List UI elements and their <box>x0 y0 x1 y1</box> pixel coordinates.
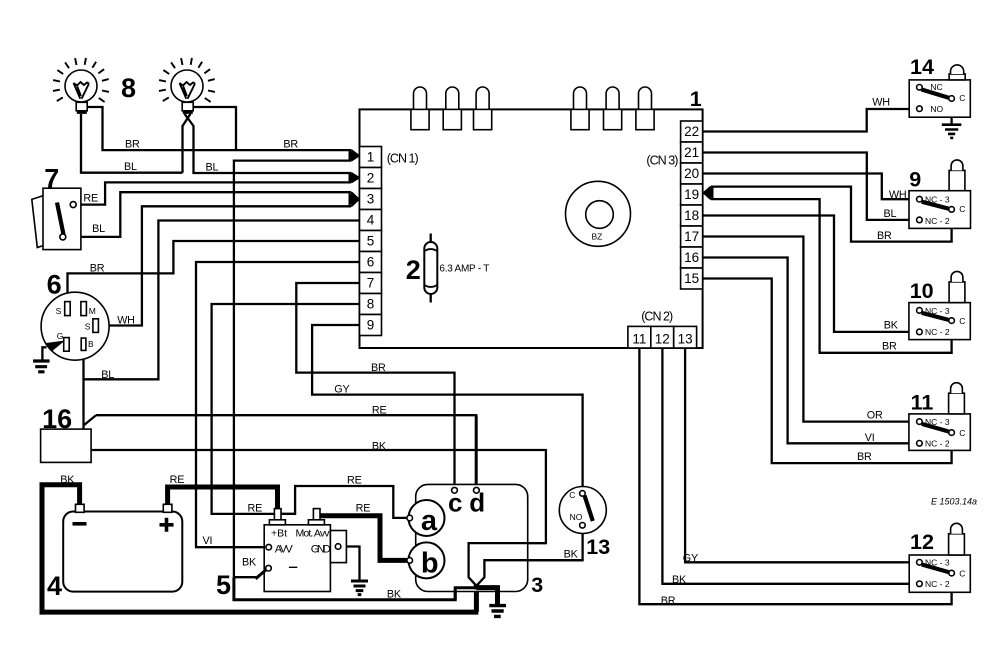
svg-text:15: 15 <box>684 271 699 286</box>
CN3 pin box 18 <box>681 205 703 226</box>
svg-text:BK: BK <box>372 441 387 453</box>
svg-text:BK: BK <box>387 588 402 600</box>
CN2 pin box 11 <box>628 326 651 348</box>
engine 3 terminal a contact <box>407 515 413 521</box>
svg-text:BR: BR <box>877 230 892 242</box>
terminal tab 2 <box>446 87 459 109</box>
key switch 6 pin S top-left <box>65 302 71 316</box>
svg-text:BK: BK <box>242 557 257 569</box>
lamp L1 bulb <box>65 70 97 102</box>
svg-text:G: G <box>57 331 64 341</box>
switch 7 contact lower <box>60 234 66 240</box>
wire GY CN2 pin13 to switch12 NC-3 <box>685 348 916 562</box>
svg-text:+Bt: +Bt <box>271 528 287 540</box>
svg-text:C: C <box>569 490 575 500</box>
svg-text:11: 11 <box>911 391 934 415</box>
svg-text:13: 13 <box>586 535 610 559</box>
engine 3 terminal c contact <box>452 487 458 493</box>
switch 10 plunger <box>949 282 965 303</box>
svg-text:GY: GY <box>683 553 698 565</box>
wire lamp2 left stem <box>183 114 191 173</box>
relay 5 lever <box>256 570 267 579</box>
wire BK battery loop thick <box>42 485 478 612</box>
switch 14 plunger <box>949 74 965 80</box>
CN1 pin box 9 <box>360 315 382 336</box>
svg-text:3: 3 <box>367 192 375 207</box>
wire funnel right from switch13 ND <box>477 528 582 585</box>
wire junction to ground redrawn <box>476 588 497 604</box>
svg-text:BL: BL <box>92 223 105 235</box>
wire BR lamp1 to CN1 pin1 top <box>87 107 351 150</box>
svg-text:BZ: BZ <box>592 232 603 242</box>
svg-text:a: a <box>421 505 438 537</box>
svg-text:2: 2 <box>406 255 421 285</box>
microswitch 10 body <box>909 303 970 340</box>
engine 3 terminal b circle <box>409 542 445 578</box>
svg-text:NC - 2: NC - 2 <box>925 579 950 589</box>
wire BL switch7 to CN1 pin3 top <box>64 192 351 237</box>
key switch 6 pin G bottom-left <box>64 338 69 352</box>
wire BR CN3 pin19 bottom to switch10 C <box>711 199 952 353</box>
control unit 1 main box <box>360 109 703 348</box>
switch 10 contact NC-3 <box>917 308 923 314</box>
switch 11 contact NC-3 <box>917 419 923 425</box>
switch 10 contact NC-2 <box>917 329 923 335</box>
svg-text:E 1503.14a: E 1503.14a <box>931 497 977 507</box>
key switch 6 body circle <box>41 292 109 360</box>
wire pin1 bottom BK down to relay minus and motor junction <box>234 161 351 578</box>
svg-text:NC - 3: NC - 3 <box>925 558 950 568</box>
svg-text:BL: BL <box>101 369 114 381</box>
microswitch 11 body <box>909 414 970 451</box>
svg-text:M: M <box>89 306 96 316</box>
CN3 pin box 22 <box>681 121 703 142</box>
svg-text:BR: BR <box>882 340 897 352</box>
svg-text:4: 4 <box>367 213 375 228</box>
svg-text:8: 8 <box>121 73 136 103</box>
svg-text:RE: RE <box>372 405 387 417</box>
key switch 6 pin M top-right <box>81 302 87 316</box>
wire BL key6 B-pin to CN1 pin4 <box>82 351 84 430</box>
wire BR CN2 pin11 to switch12 C <box>639 348 951 604</box>
microswitch 12 body <box>909 555 970 592</box>
switch 12 plunger <box>949 534 965 555</box>
svg-text:NC - 2: NC - 2 <box>925 216 950 226</box>
svg-text:(CN 3): (CN 3) <box>646 154 678 168</box>
CN1 pin box 8 <box>360 294 382 315</box>
switch 9 plunger <box>949 170 965 190</box>
relay 5 terminal Mot.Avv <box>313 509 320 520</box>
battery 4 minus sign <box>73 522 87 526</box>
svg-text:VI: VI <box>865 432 875 444</box>
svg-text:RE: RE <box>83 192 98 204</box>
switch 14 contact C <box>949 96 955 102</box>
svg-text:21: 21 <box>684 145 699 160</box>
svg-text:BR: BR <box>371 362 386 374</box>
svg-text:16: 16 <box>684 250 699 265</box>
lamp L1 filament <box>74 82 90 99</box>
switch 14 contact NC <box>917 85 923 91</box>
relay 5 contact minus <box>266 565 272 571</box>
wire RE CN1 pin8 to relay +Bt <box>212 304 360 514</box>
switch 7 lever <box>57 203 64 236</box>
svg-text:9: 9 <box>909 168 921 192</box>
terminal tab 1 <box>414 87 427 109</box>
switch 12 lever <box>922 565 949 573</box>
wire WH CN3 pin22 to switch14 NO <box>703 109 917 132</box>
CN1 pin box 6 <box>360 252 382 273</box>
battery 4 terminal plus <box>163 504 172 512</box>
svg-text:C: C <box>959 93 965 103</box>
svg-text:1: 1 <box>690 87 702 111</box>
svg-text:(CN 2): (CN 2) <box>641 310 673 324</box>
microswitch 14 body <box>909 80 970 117</box>
svg-text:BR: BR <box>90 263 105 275</box>
svg-text:RE: RE <box>356 503 371 515</box>
wire BK CN3 pin18 to switch10 NC-2 <box>703 216 917 332</box>
arrow pennant pin3 <box>351 192 359 206</box>
CN1 pin box 3 <box>360 189 382 210</box>
key switch 6 pin B bottom-right <box>81 338 86 350</box>
svg-text:BK: BK <box>884 320 899 332</box>
label relay minus dash <box>289 566 297 568</box>
wire relay GND to ground <box>341 547 360 581</box>
svg-text:BL: BL <box>124 161 137 173</box>
switch 13 contact C <box>580 491 586 497</box>
lamp L1 rays <box>53 58 109 102</box>
svg-text:S: S <box>85 322 91 332</box>
wire GY CN1 pin9 to switch13 C <box>312 325 582 491</box>
svg-text:19: 19 <box>684 187 699 202</box>
switch 11 plunger <box>949 393 965 414</box>
wire BR key6 S-pin to CN1 pin5 <box>68 241 360 302</box>
switch 7 body <box>43 188 81 249</box>
switch 13 contact NO <box>580 523 586 529</box>
svg-text:NC - 3: NC - 3 <box>925 195 950 205</box>
wire key6 B to box16 diagonal branch to RE d-wire <box>84 415 97 425</box>
terminal tab 3 <box>476 87 489 109</box>
svg-text:17: 17 <box>684 229 699 244</box>
svg-text:S: S <box>56 306 62 316</box>
junction dot motor ground <box>474 584 479 589</box>
svg-text:NC: NC <box>930 82 942 92</box>
svg-text:12: 12 <box>655 332 670 347</box>
switch 11 contact NC-2 <box>917 441 923 447</box>
engine 3 funnel wires redrawn inside <box>469 543 583 585</box>
svg-text:RE: RE <box>347 475 362 487</box>
battery 4 body <box>63 512 182 592</box>
svg-text:1: 1 <box>367 150 375 165</box>
ground symbol switch14 <box>942 125 962 138</box>
svg-text:BL: BL <box>884 208 897 220</box>
wire BK relay bottom run to motor junction <box>234 577 474 600</box>
svg-text:18: 18 <box>684 208 699 223</box>
CN1 pin box 4 <box>360 210 382 231</box>
switch 9 lever <box>922 202 949 209</box>
svg-text:RE: RE <box>248 503 263 515</box>
arrow pennant pin1 <box>351 150 359 161</box>
CN2 pin box 12 <box>651 326 674 348</box>
switch 9 contact NC-3 <box>917 196 923 202</box>
svg-text:BK: BK <box>564 549 579 561</box>
svg-text:C: C <box>959 428 965 438</box>
svg-text:d: d <box>469 487 485 517</box>
CN3 pin box 20 <box>681 163 703 184</box>
microswitch 9 body <box>909 191 971 229</box>
wire thick junction to bottom BK run <box>474 587 479 612</box>
svg-text:BL: BL <box>206 161 219 173</box>
wire BR CN3 pin19 top to switch9 C <box>711 187 952 242</box>
svg-text:c: c <box>448 487 462 517</box>
fuse 2 capsule <box>430 234 432 303</box>
svg-text:8: 8 <box>367 297 375 312</box>
battery 4 plus sign <box>160 518 174 532</box>
starter relay 5 body <box>264 525 330 592</box>
lamp L2 rays <box>159 58 215 102</box>
wire BK box16 to motor funnel left <box>91 450 546 585</box>
relay 5 terminal +Bt <box>274 509 281 520</box>
svg-text:WH: WH <box>889 189 907 201</box>
terminal tab 4 <box>574 87 587 109</box>
lamp L2 socket <box>182 102 193 111</box>
CN3 pin box 17 <box>681 226 703 247</box>
switch 7 stacked plates <box>32 196 49 248</box>
svg-text:C: C <box>959 316 965 326</box>
svg-text:7: 7 <box>367 276 375 291</box>
safety switch 13 circle <box>559 487 606 534</box>
svg-text:C: C <box>959 568 965 578</box>
arrow pennant pin19 <box>704 187 711 200</box>
CN3 pin box 15 <box>681 268 703 289</box>
ground symbol key6 <box>33 361 50 372</box>
wire thick junction to motor ground <box>476 588 497 604</box>
svg-text:NC - 3: NC - 3 <box>925 417 950 427</box>
relay 5 contact AVV <box>266 544 272 550</box>
engine 3 terminal a circle <box>409 500 445 536</box>
svg-text:NC - 3: NC - 3 <box>925 306 950 316</box>
switch 13 lever <box>585 496 593 522</box>
ground symbol relay <box>351 581 368 595</box>
engine 3 terminal b contact <box>407 558 413 564</box>
svg-text:BR: BR <box>283 139 298 151</box>
lamp L2 bulb <box>171 70 203 102</box>
wire BR CN1 pin7 to motor c <box>296 283 454 488</box>
wire stub relay minus <box>234 576 256 578</box>
relay 5 contact GND <box>335 544 341 550</box>
wire RE relay MotAvv to motor b thick <box>317 512 407 561</box>
buzzer BZ outer <box>566 181 631 246</box>
svg-text:BR: BR <box>857 451 872 463</box>
svg-text:C: C <box>959 204 965 214</box>
svg-text:VI: VI <box>203 535 213 547</box>
wire RE battery plus to relay +Bt thick <box>168 487 278 519</box>
svg-text:20: 20 <box>684 166 699 181</box>
svg-text:5: 5 <box>367 234 375 249</box>
svg-text:AVV: AVV <box>275 543 294 555</box>
wire BL lamp2 right stem to CN1 pin2 top <box>185 114 352 173</box>
svg-text:11: 11 <box>632 332 646 347</box>
buzzer BZ inner <box>586 201 614 229</box>
wire WH CN3 pin20 to switch9 NC-3 <box>703 174 917 200</box>
svg-text:BK: BK <box>60 474 75 486</box>
wire RE key6 B to motor d <box>96 414 476 417</box>
svg-text:BR: BR <box>661 595 676 607</box>
svg-text:NC - 2: NC - 2 <box>925 439 950 449</box>
CN3 pin box 21 <box>681 142 703 163</box>
svg-text:NC - 2: NC - 2 <box>925 327 950 337</box>
svg-text:WH: WH <box>117 315 135 327</box>
engine 3 terminal d contact <box>474 487 480 493</box>
switch 10 contact C <box>949 318 955 324</box>
wire BR lamp2 to junction on pin1 top wire <box>193 107 236 150</box>
wire BR CN3 pin15 to switch11 C <box>703 279 952 464</box>
svg-text:22: 22 <box>684 124 699 139</box>
svg-text:6: 6 <box>47 270 62 300</box>
svg-text:OR: OR <box>867 410 883 422</box>
switch 12 contact NC-2 <box>917 581 923 587</box>
svg-text:B: B <box>88 339 94 349</box>
wire BK step to junction redrawn <box>455 588 474 600</box>
svg-text:b: b <box>421 548 439 580</box>
wire RE switch7 to CN1 pin2 bottom <box>76 182 352 204</box>
CN3 pin box 16 <box>681 247 703 268</box>
svg-text:2: 2 <box>367 171 375 186</box>
CN2 pin box 13 <box>674 326 697 348</box>
lamp L2 filament <box>180 82 196 99</box>
svg-text:14: 14 <box>910 55 934 79</box>
wire BL CN3 pin21 to switch9 NC-2 <box>703 153 917 220</box>
svg-text:RE: RE <box>170 474 185 486</box>
svg-text:6.3 AMP - T: 6.3 AMP - T <box>439 264 489 275</box>
wire OR CN3 pin17 to switch11 NC-3 <box>703 237 917 422</box>
wire BL lamp1 stem <box>81 114 183 173</box>
svg-text:4: 4 <box>47 571 62 601</box>
svg-text:7: 7 <box>44 164 59 194</box>
battery 4 terminal minus <box>76 504 85 512</box>
key switch 6 pin S mid-right <box>93 319 99 333</box>
wire WH key6 to CN1 pin3 bottom <box>98 206 351 325</box>
relay 5 GND box <box>330 531 346 563</box>
switch 11 lever <box>922 424 949 432</box>
svg-text:GND: GND <box>311 543 331 555</box>
switch 11 contact C <box>949 430 955 436</box>
wire d vertical thick <box>475 415 478 487</box>
svg-text:NO: NO <box>570 512 583 522</box>
terminal tab 6 <box>639 87 652 109</box>
switch 9 contact C <box>949 207 955 213</box>
svg-text:GY: GY <box>334 384 349 396</box>
svg-text:BR: BR <box>125 139 140 151</box>
svg-text:16: 16 <box>42 404 72 434</box>
wire RE thin +Bt up to motor a <box>280 486 407 518</box>
switch 14 lever <box>922 90 949 98</box>
terminal tab 5 <box>606 87 619 109</box>
switch 9 contact NC-2 <box>917 217 923 223</box>
svg-text:5: 5 <box>216 570 231 600</box>
wire VI CN1 pin6 to relay AVV <box>196 262 360 547</box>
wire BK CN2 pin12 to switch12 NC-2 <box>662 348 916 584</box>
CN1 pin box 2 <box>360 168 382 189</box>
svg-text:9: 9 <box>367 318 375 333</box>
CN1 pin box 7 <box>360 273 382 294</box>
svg-text:(CN 1): (CN 1) <box>387 152 419 166</box>
wire switch14 C to ground <box>950 102 952 124</box>
svg-text:6: 6 <box>367 255 375 270</box>
CN3 pin box 19 <box>681 184 703 205</box>
ground symbol motor <box>489 606 506 617</box>
svg-text:Mot. Avv: Mot. Avv <box>296 528 331 540</box>
svg-text:12: 12 <box>910 530 934 554</box>
switch 10 lever <box>922 313 949 320</box>
CN1 pin box 1 <box>360 147 382 168</box>
svg-text:3: 3 <box>531 573 543 597</box>
switch 12 contact C <box>949 570 955 576</box>
svg-text:BK: BK <box>672 574 687 586</box>
arrow pennant pin2 <box>351 173 359 182</box>
svg-text:10: 10 <box>910 279 934 303</box>
engine 3 body <box>416 484 528 591</box>
switch 7 contact upper <box>70 202 76 208</box>
svg-text:13: 13 <box>678 332 693 347</box>
connector box 16 <box>41 429 92 462</box>
wire VI CN3 pin16 to switch11 NC-2 <box>703 258 917 444</box>
lamp L1 socket <box>76 102 87 111</box>
switch 14 contact NO <box>917 106 923 112</box>
svg-text:NO: NO <box>930 104 943 114</box>
svg-text:WH: WH <box>872 97 890 109</box>
CN1 pin box 5 <box>360 231 382 252</box>
key switch 6 ground arrow <box>46 341 65 352</box>
switch 12 contact NC-3 <box>917 560 923 566</box>
